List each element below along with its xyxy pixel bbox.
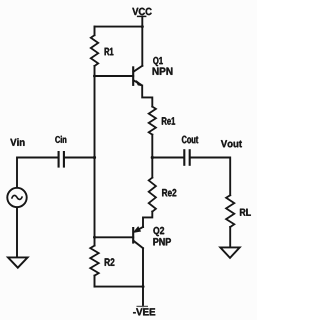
wire Q1 emitter to Re1 elbow (142, 85, 152, 106)
resistor R1 value label (105, 48, 114, 55)
resistor Re2 value label (162, 189, 176, 197)
wire Re1 bottom to output node (151, 135, 153, 158)
power -VEE label (133, 308, 155, 315)
wire Q1 base (95, 75, 134, 77)
ground at source (8, 257, 28, 267)
wire Q2 base (95, 236, 134, 238)
wire top rail (95, 26, 143, 28)
wire source to ground (16, 207, 18, 256)
source Vin AC circle (7, 188, 26, 207)
node Vin label (10, 138, 24, 145)
resistor R2 value label (105, 258, 115, 266)
resistor R2 (90, 246, 98, 276)
capacitor Cout right plate (189, 149, 191, 166)
wire left rail middle segment (94, 66, 96, 246)
wire RL to ground (229, 227, 231, 247)
source Vin sine wave (12, 195, 23, 199)
transistor Q1 label (153, 57, 163, 66)
wire bottom rail (95, 286, 144, 288)
ground at load (220, 247, 239, 258)
transistor Q2 type label PNP (153, 238, 171, 245)
wire output node down to Re2 (151, 158, 153, 178)
transistor Q1 base bar (132, 66, 134, 86)
power -VEE pin tick (137, 305, 149, 307)
junction left rail / Q2 base (93, 236, 96, 239)
wire Cout to RL corner (191, 158, 231, 196)
wire Re2 to Q2 emitter elbow (143, 212, 152, 227)
transistor Q2 base bar (132, 227, 134, 244)
transistor Q1 emitter arrowhead (136, 81, 142, 86)
resistor Re2 (149, 178, 156, 212)
junction left rail / Q1 base (93, 75, 96, 78)
transistor Q2 emitter stroke (139, 227, 143, 229)
resistor Re1 (149, 107, 156, 135)
transistor Q1 type label NPN (153, 68, 173, 75)
wire left rail top segment (94, 27, 96, 36)
node output junction (151, 156, 154, 159)
capacitor Cin right plate (63, 151, 65, 168)
resistor RL value label (240, 209, 251, 216)
transistor Q1 emitter stroke (134, 80, 141, 84)
resistor R1 (91, 35, 98, 66)
capacitor Cin label (55, 136, 66, 143)
node Vout label (221, 140, 242, 147)
capacitor Cout left plate (183, 149, 185, 166)
resistor RL (226, 195, 234, 227)
transistor Q1 collector stroke (134, 66, 143, 72)
resistor Re1 value label (162, 117, 175, 124)
wire Vin corner to Cin (17, 158, 58, 188)
wire Cin to left rail (65, 157, 95, 159)
capacitor Cout label (182, 136, 198, 144)
transistor Q2 label (153, 227, 164, 236)
transistor Q2 emitter arrowhead (134, 227, 140, 232)
wire Q2 collector down (142, 248, 144, 286)
junction bottom rail / VEE stub (142, 285, 145, 288)
power VCC pin tick (137, 15, 147, 17)
junction Cin wire / left rail (93, 156, 96, 159)
wire VCC stub down to Q1 collector (141, 17, 143, 66)
wire output node to Cout (152, 157, 183, 159)
power VCC label (132, 8, 151, 15)
junction VCC stub / top rail (141, 25, 144, 28)
wire left rail bottom segment (94, 276, 96, 287)
wire -VEE stub (142, 287, 144, 307)
capacitor Cin left plate (58, 151, 60, 168)
transistor Q2 collector stroke (134, 241, 144, 248)
